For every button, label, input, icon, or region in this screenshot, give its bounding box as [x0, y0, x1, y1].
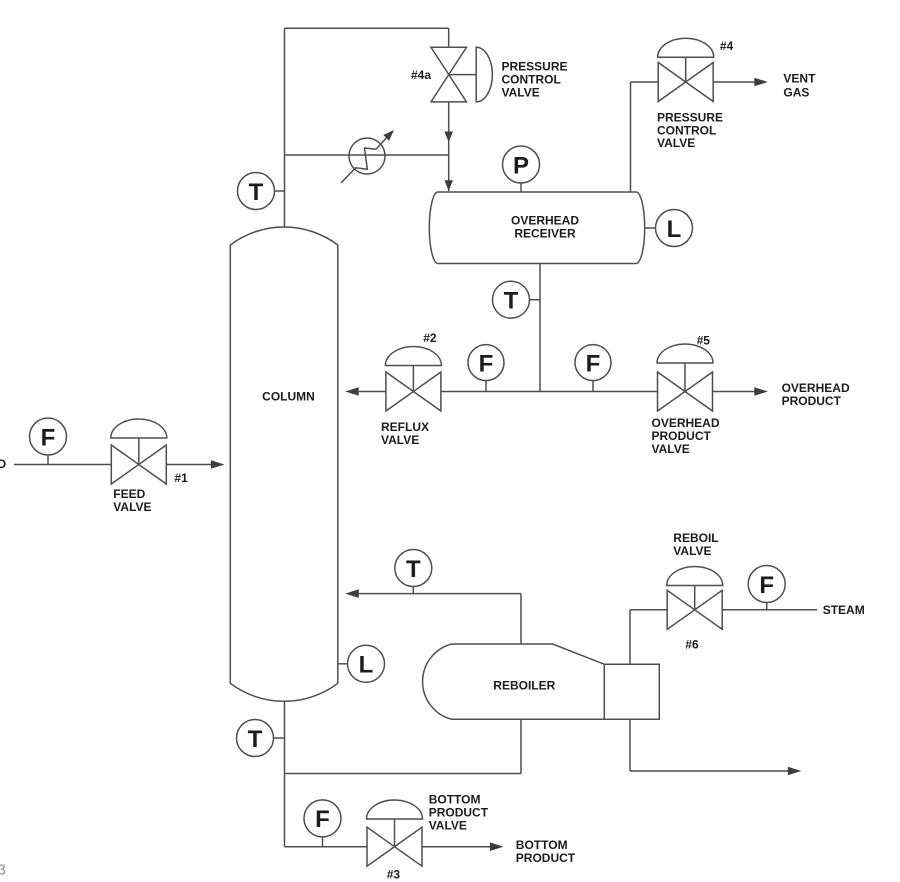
svg-text:T: T	[406, 556, 421, 583]
svg-text:3: 3	[0, 862, 6, 879]
arrow overhead product	[754, 387, 768, 396]
arrow reflux into column	[345, 387, 359, 396]
wire receiver downcomer	[539, 264, 541, 392]
instrument L2 (column level)	[338, 645, 385, 682]
wire bottoms to reboiler vertical	[520, 719, 522, 773]
wire condenser line	[285, 154, 449, 156]
svg-text:T: T	[248, 726, 263, 753]
wire vent to valve 4	[631, 81, 659, 83]
instrument F3 (feed flow)	[30, 418, 67, 465]
instrument F2 (overhead product flow)	[575, 345, 611, 392]
svg-text:OVERHEADPRODUCTVALVE: OVERHEADPRODUCTVALVE	[652, 416, 720, 456]
wire condensate down	[629, 719, 631, 771]
wire bypass down to valve 4a	[448, 28, 450, 47]
svg-text:#3: #3	[387, 868, 401, 882]
valve #2 reflux valve	[385, 347, 441, 411]
svg-text:#6: #6	[685, 638, 699, 652]
column C1	[230, 227, 337, 701]
svg-text:#4a: #4a	[411, 68, 431, 82]
svg-text:REBOILVALVE: REBOILVALVE	[673, 531, 718, 558]
arrow vapor return into column	[345, 589, 359, 598]
valve #4 pressure control (vent)	[658, 38, 714, 101]
reboiler E2	[423, 644, 660, 719]
wire bottom product outlet	[422, 846, 490, 848]
svg-text:F: F	[315, 806, 330, 833]
wire overhead product outlet	[713, 391, 755, 393]
svg-text:F: F	[759, 572, 774, 599]
instrument T1 (overhead temperature)	[238, 173, 285, 210]
wire feed line	[14, 464, 111, 466]
arrow feed	[211, 460, 225, 469]
wire steam to reboiler horizontal	[630, 609, 667, 611]
wire bottoms to reboiler horizontal	[285, 773, 522, 775]
wire vent riser from receiver	[630, 82, 632, 192]
wire vapor return line	[359, 593, 521, 595]
arrow vent gas	[754, 78, 768, 87]
wire vent gas outlet	[713, 81, 754, 83]
svg-text:PRESSURECONTROLVALVE: PRESSURECONTROLVALVE	[657, 111, 723, 151]
instrument L1 (receiver level)	[644, 210, 692, 247]
svg-text:L: L	[667, 216, 682, 243]
wire column bottoms stem	[284, 701, 286, 847]
svg-text:COLUMN: COLUMN	[262, 390, 315, 404]
svg-text:BOTTOMPRODUCT: BOTTOMPRODUCT	[516, 838, 576, 865]
arrow condensate	[788, 767, 802, 776]
instrument F4 (steam flow)	[748, 566, 785, 610]
wire steam inlet	[722, 609, 817, 611]
arrow bottom product	[490, 842, 504, 851]
svg-text:OVERHEADRECEIVER: OVERHEADRECEIVER	[511, 214, 579, 241]
svg-text:F: F	[586, 350, 601, 377]
instrument T3 (vapor return temperature)	[395, 550, 432, 594]
valve #6 reboil valve	[667, 567, 723, 630]
instrument F5 (bottom product flow)	[304, 800, 341, 847]
wire overhead product line	[441, 391, 658, 393]
svg-text:#2: #2	[423, 331, 437, 345]
wire overhead riser	[284, 28, 286, 227]
wire valve 4a outlet down to receiver	[448, 102, 450, 191]
svg-text:#4: #4	[720, 39, 734, 53]
svg-text:P: P	[513, 152, 529, 179]
instrument T4 (bottoms temperature)	[237, 720, 285, 757]
arrow down 2	[444, 180, 453, 191]
svg-text:FEEDVALVE: FEEDVALVE	[113, 487, 151, 514]
svg-text:OVERHEADPRODUCT: OVERHEADPRODUCT	[782, 381, 850, 408]
svg-text:REBOILER: REBOILER	[493, 679, 555, 693]
wire bottom product line	[285, 846, 368, 848]
wire condensate out	[630, 770, 790, 772]
svg-text:#5: #5	[697, 334, 711, 348]
wire reflux line	[359, 391, 386, 393]
svg-text:L: L	[359, 652, 374, 679]
wire vapor riser from reboiler	[520, 594, 522, 644]
valve #3 bottom product valve	[367, 800, 423, 866]
svg-text:T: T	[504, 288, 519, 315]
svg-text:STEAM: STEAM	[823, 603, 865, 617]
instrument P1 (receiver pressure)	[503, 146, 540, 192]
svg-text:PRESSURECONTROLVALVE: PRESSURECONTROLVALVE	[502, 59, 568, 99]
valve #1 feed valve	[111, 419, 167, 484]
svg-text:REFLUXVALVE: REFLUXVALVE	[381, 420, 429, 447]
svg-text:VENTGAS: VENTGAS	[783, 72, 816, 100]
instrument F1 (reflux flow)	[468, 345, 504, 392]
wire feed into column	[166, 464, 211, 466]
svg-text:F: F	[479, 350, 494, 377]
condenser E1 (cooler symbol)	[341, 130, 394, 183]
svg-text:BOTTOMPRODUCTVALVE: BOTTOMPRODUCTVALVE	[429, 793, 489, 833]
valve #5 overhead product valve	[657, 344, 713, 411]
svg-text:T: T	[249, 179, 264, 206]
valve #4a pressure control (vertical)	[431, 47, 492, 102]
instrument T2 (reflux temperature)	[493, 281, 541, 318]
svg-text:#1: #1	[174, 471, 188, 485]
overhead receiver V1	[429, 192, 644, 264]
wire steam down to channel head	[629, 610, 631, 665]
arrow down 1	[444, 132, 453, 143]
svg-text:D: D	[0, 457, 7, 471]
wire bypass top horizontal	[285, 27, 449, 29]
svg-text:F: F	[41, 424, 56, 451]
